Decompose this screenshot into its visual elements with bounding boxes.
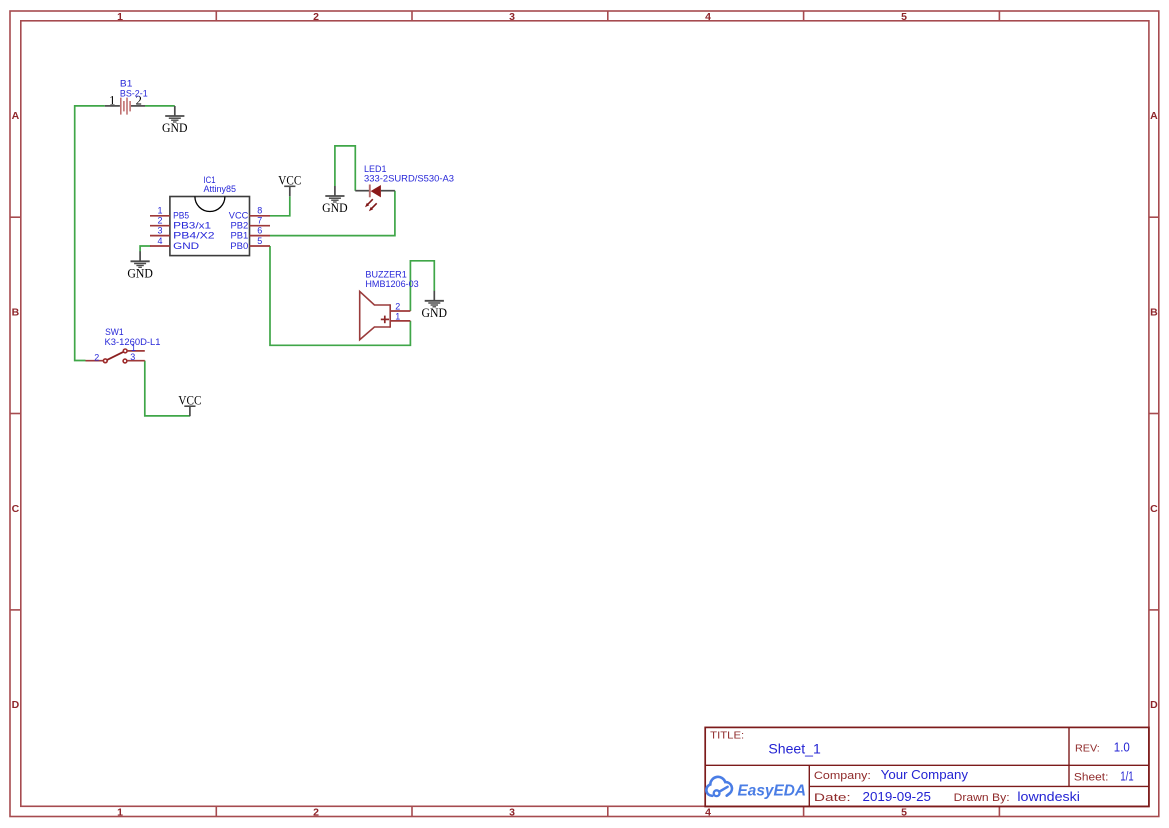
light arrow 2	[372, 203, 377, 208]
svg-text:PB4/X2: PB4/X2	[173, 231, 215, 241]
svg-text:lowndeski: lowndeski	[1017, 790, 1080, 804]
svg-text:Company:: Company:	[814, 770, 871, 782]
led LED1	[355, 164, 454, 211]
power flag VCC switch	[178, 393, 201, 416]
buzzer BUZZER1	[360, 269, 419, 339]
svg-text:PB5: PB5	[173, 211, 189, 221]
date label	[814, 792, 851, 804]
svg-text:3: 3	[509, 806, 515, 818]
ground GND IC pin4	[127, 251, 153, 280]
svg-text:Your Company: Your Company	[881, 768, 969, 782]
cathode bar	[369, 185, 371, 198]
plus sign	[381, 318, 389, 320]
svg-text:TITLE:: TITLE:	[710, 730, 744, 741]
svg-text:2: 2	[157, 216, 162, 226]
pin 6 PB1	[250, 235, 271, 237]
sheet value	[1120, 769, 1134, 784]
sheet label	[1074, 772, 1109, 784]
svg-text:1: 1	[117, 806, 123, 818]
ground GND buzzer	[422, 291, 448, 320]
svg-text:A: A	[12, 110, 20, 122]
svg-text:Attiny85: Attiny85	[204, 184, 237, 194]
pin 7 PB2	[250, 225, 271, 227]
company value	[881, 768, 969, 782]
svg-text:1: 1	[157, 206, 162, 216]
svg-text:Date:: Date:	[814, 792, 851, 804]
svg-text:HMB1206-03: HMB1206-03	[365, 279, 418, 289]
svg-text:A: A	[1150, 110, 1158, 122]
pin 5 PB0	[250, 245, 271, 247]
svg-text:BUZZER1: BUZZER1	[365, 269, 406, 279]
svg-text:5: 5	[901, 11, 907, 23]
wire buzzer pin2 to GND	[410, 261, 434, 311]
svg-text:PB1: PB1	[231, 231, 249, 241]
contact circle pin 3	[123, 359, 127, 363]
svg-text:PB3/x1: PB3/x1	[173, 221, 211, 231]
svg-text:LED1: LED1	[364, 164, 387, 174]
svg-text:D: D	[12, 699, 20, 711]
date value	[863, 790, 932, 804]
svg-text:4: 4	[705, 806, 711, 818]
ground GND LED	[322, 186, 348, 215]
svg-text:Sheet_1: Sheet_1	[768, 741, 821, 757]
pin 1 anode lead	[381, 190, 395, 192]
svg-text:3: 3	[130, 352, 135, 362]
svg-text:4: 4	[157, 236, 162, 246]
rev value	[1114, 740, 1130, 755]
svg-text:2: 2	[395, 301, 400, 311]
svg-text:8: 8	[257, 206, 262, 216]
svg-text:1: 1	[117, 11, 123, 23]
svg-text:1/1: 1/1	[1120, 769, 1134, 784]
buzzer body right edge	[389, 304, 391, 327]
wire IC pin5 to buzzer pin1	[270, 246, 410, 345]
svg-text:2: 2	[313, 11, 319, 23]
svg-text:Drawn By:: Drawn By:	[954, 792, 1010, 804]
svg-text:4: 4	[705, 11, 711, 23]
power flag VCC IC pin8	[278, 174, 301, 197]
diode triangle	[371, 185, 381, 197]
pin 2 of BUZZER1	[390, 310, 410, 312]
drawn-by value	[1017, 790, 1080, 804]
pin 2 of B1	[131, 105, 145, 107]
battery plates	[120, 98, 122, 115]
svg-text:7: 7	[257, 216, 262, 226]
buzzer horn	[360, 291, 391, 339]
pin 8 VCC	[250, 215, 271, 217]
svg-text:3: 3	[157, 225, 162, 235]
svg-text:6: 6	[257, 225, 262, 235]
svg-text:SW1: SW1	[105, 327, 124, 337]
battery B1	[105, 79, 148, 115]
pin 3 PB4/X2	[150, 235, 170, 237]
svg-text:PB0: PB0	[230, 241, 248, 251]
svg-text:2019-09-25: 2019-09-25	[863, 790, 932, 804]
wire IC pin4 to GND	[140, 246, 150, 252]
easyeda logo	[706, 777, 806, 799]
svg-text:1: 1	[395, 312, 400, 322]
svg-text:5: 5	[901, 806, 907, 818]
IC notch	[195, 197, 225, 212]
svg-text:BS-2-1: BS-2-1	[120, 89, 148, 99]
contact circle pin 2	[103, 359, 107, 363]
wire IC pin6 to LED cathode	[270, 191, 395, 236]
company label	[814, 770, 871, 782]
svg-text:C: C	[12, 503, 20, 515]
svg-text:2: 2	[313, 806, 319, 818]
svg-text:K3-1260D-L1: K3-1260D-L1	[105, 337, 161, 347]
title value Sheet_1	[768, 741, 821, 757]
svg-text:B: B	[1150, 306, 1158, 318]
svg-text:3: 3	[509, 11, 515, 23]
svg-text:REV:: REV:	[1075, 743, 1100, 755]
svg-text:PB2: PB2	[231, 221, 249, 231]
rev label	[1075, 743, 1100, 755]
pin 4 GND	[150, 245, 170, 247]
wire switch pin3 to VCC	[145, 361, 190, 416]
svg-text:B: B	[12, 306, 20, 318]
contact circle pin 1	[123, 349, 127, 353]
pin 1 of B1	[105, 105, 120, 107]
wire IC pin8 to VCC	[270, 196, 290, 215]
svg-text:2: 2	[94, 352, 99, 362]
svg-text:D: D	[1150, 699, 1158, 711]
IC body	[170, 197, 250, 256]
light arrow 1	[368, 199, 373, 204]
svg-text:VCC: VCC	[229, 211, 249, 221]
wire battery pin2 to GND	[145, 105, 175, 107]
title label	[710, 730, 744, 741]
title block	[705, 727, 1149, 806]
svg-text:1: 1	[109, 94, 115, 108]
pin 1 PB5	[150, 215, 170, 217]
switch lever	[107, 352, 123, 360]
pin 1 of SW1	[127, 350, 145, 352]
wire LED anode to GND	[335, 146, 355, 191]
wire battery pin1 to switch pin2	[75, 106, 105, 361]
svg-text:1.0: 1.0	[1114, 740, 1130, 755]
svg-text:C: C	[1150, 503, 1158, 515]
pin 1 of BUZZER1	[390, 320, 410, 322]
pin 2 cathode lead	[355, 190, 369, 192]
svg-text:EasyEDA: EasyEDA	[738, 782, 807, 799]
svg-text:333-2SURD/S530-A3: 333-2SURD/S530-A3	[364, 174, 454, 184]
svg-text:Sheet:: Sheet:	[1074, 772, 1109, 784]
drawn-by label	[954, 792, 1010, 804]
pin 3 of SW1	[127, 360, 145, 362]
svg-text:GND: GND	[173, 241, 200, 251]
pin 2 PB3/x1	[150, 225, 170, 227]
svg-text:5: 5	[257, 236, 262, 246]
svg-text:B1: B1	[120, 79, 132, 89]
ground GND battery	[162, 106, 188, 135]
pin 2 of SW1	[86, 360, 104, 362]
ic IC1 Attiny85	[150, 175, 270, 256]
switch SW1	[86, 327, 161, 363]
